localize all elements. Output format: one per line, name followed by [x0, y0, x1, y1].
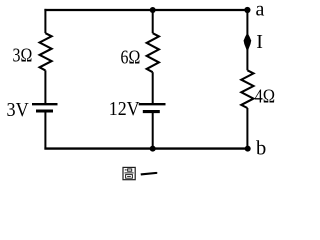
svg-text:12V: 12V: [109, 99, 140, 120]
battery 3V long plate (+): [32, 103, 58, 105]
svg-text:a: a: [256, 0, 265, 21]
caption character 一 (drawn): [141, 172, 158, 176]
battery 3V short plate (-): [36, 109, 53, 112]
wire left branch middle segment: [44, 70, 46, 104]
battery 12V long plate (+): [139, 103, 166, 105]
wire right branch lower segment (resistor down to node b): [246, 108, 248, 149]
wire bottom horizontal (left corner to node b): [44, 147, 248, 149]
resistor 4Ω (right branch zigzag): [241, 70, 253, 108]
svg-text:b: b: [256, 138, 266, 160]
resistor 3Ω (left branch zigzag): [40, 33, 52, 70]
svg-text:4Ω: 4Ω: [255, 87, 276, 108]
wire middle branch lower segment: [152, 111, 154, 148]
node b dot: [245, 146, 251, 152]
node a dot: [244, 7, 250, 13]
svg-text:3V: 3V: [7, 100, 29, 121]
svg-text:I: I: [256, 31, 263, 53]
svg-text:6Ω: 6Ω: [121, 47, 141, 68]
wire middle branch upper segment: [152, 10, 154, 33]
wire middle branch middle segment: [152, 72, 154, 104]
caption character 圖 (drawn): [123, 167, 135, 179]
resistor 6Ω (middle branch zigzag): [147, 33, 159, 72]
wire left branch upper segment: [44, 9, 46, 33]
wire top horizontal (left corner to node a): [44, 9, 247, 11]
junction dot middle bottom: [150, 146, 156, 152]
battery 12V short plate (-): [143, 110, 160, 113]
wire left branch lower segment: [44, 111, 46, 150]
wire right branch upper segment (node a down to resistor): [246, 10, 248, 70]
svg-text:3Ω: 3Ω: [13, 45, 33, 66]
current arrow I (downward solid head): [244, 33, 252, 52]
junction dot middle top: [150, 7, 156, 13]
